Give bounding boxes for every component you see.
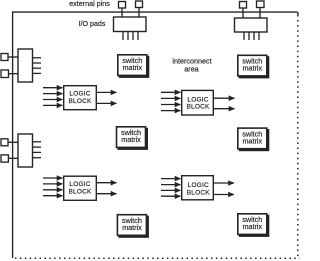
I/O pad left-bottom pins	[33, 142, 42, 158]
logic block LB2	[182, 90, 214, 115]
switch matrix SM5	[117, 215, 149, 238]
LB4 output wires	[214, 183, 234, 195]
switch matrix SM4	[238, 128, 269, 151]
chip boundary dashed bottom edge	[15, 257, 300, 259]
external pin square P1	[119, 2, 126, 9]
switch matrix SM6	[238, 214, 269, 237]
svg-text:matrix: matrix	[121, 135, 141, 144]
I/O pad top-left	[114, 17, 147, 32]
I/O pad top-left pins	[123, 32, 138, 41]
svg-text:matrix: matrix	[243, 222, 263, 231]
external pin square P2	[136, 1, 143, 8]
svg-text:matrix: matrix	[122, 223, 142, 232]
svg-text:LOGIC: LOGIC	[187, 96, 208, 103]
logic block LB3	[64, 176, 97, 200]
LB3 input wires	[43, 178, 63, 196]
svg-text:LOGIC: LOGIC	[69, 91, 90, 98]
LB4 input wires	[161, 179, 181, 197]
I/O pad left-top	[18, 49, 33, 82]
svg-text:I/O pads: I/O pads	[79, 20, 106, 28]
svg-text:external pins: external pins	[69, 0, 110, 8]
external pin square P8	[1, 155, 8, 162]
logic block LB4	[182, 176, 214, 200]
svg-text:LOGIC: LOGIC	[69, 181, 90, 188]
chip boundary dashed right edge	[297, 20, 299, 260]
svg-text:BLOCK: BLOCK	[68, 189, 92, 196]
svg-text:matrix: matrix	[243, 136, 263, 145]
svg-text:BLOCK: BLOCK	[187, 189, 211, 196]
wire P5 to pad	[8, 56, 18, 58]
svg-text:BLOCK: BLOCK	[68, 98, 92, 105]
svg-text:LOGIC: LOGIC	[188, 182, 209, 189]
svg-text:matrix: matrix	[123, 63, 143, 72]
LB2 output wires	[214, 98, 235, 109]
I/O pad top-right pins	[244, 32, 259, 40]
corner stub right	[297, 12, 299, 16]
external pin square P3	[240, 2, 247, 9]
LB3 output wires	[97, 183, 117, 194]
I/O pad left-bottom	[18, 134, 33, 167]
switch matrix SM2	[238, 55, 269, 78]
I/O pad left-top pins	[33, 58, 42, 74]
logic block LB1	[64, 86, 97, 110]
wire P1 to pad	[121, 8, 123, 17]
external pin square P7	[1, 139, 8, 146]
LB1 input wires	[43, 88, 63, 106]
external pin square P4	[257, 1, 265, 8]
I/O pad top-right	[235, 18, 268, 32]
wire P2 to pad	[138, 8, 140, 18]
wire P8 to pad	[8, 157, 18, 159]
wire P7 to pad	[8, 141, 18, 143]
external pin square P5	[1, 54, 8, 61]
wire P3 to pad	[242, 8, 244, 18]
svg-text:matrix: matrix	[243, 64, 263, 73]
external pin square P6	[1, 70, 9, 78]
LB1 output wires	[97, 92, 117, 103]
switch matrix SM3	[117, 127, 149, 150]
wire P6 to pad	[9, 73, 19, 75]
svg-text:area: area	[184, 64, 198, 73]
wire P4 to pad	[259, 8, 261, 19]
switch matrix SM1	[118, 55, 150, 78]
LB2 input wires	[161, 92, 181, 110]
svg-text:BLOCK: BLOCK	[186, 103, 210, 110]
